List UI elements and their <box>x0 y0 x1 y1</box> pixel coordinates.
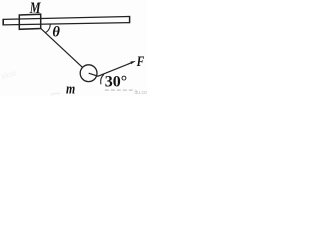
svg-text:du.com: du.com <box>135 90 148 96</box>
svg-text:θ: θ <box>52 24 60 40</box>
theta arc <box>45 24 50 33</box>
rod left cap <box>2 19 4 26</box>
svg-text:30°: 30° <box>105 73 127 90</box>
faint watermark smudge mid-bottom <box>51 93 60 95</box>
svg-text:F: F <box>136 54 144 70</box>
svg-text:m: m <box>66 82 75 96</box>
force F line <box>89 62 133 76</box>
watermark dashed line <box>105 89 136 91</box>
rod top line <box>3 17 129 20</box>
sleeve block M <box>19 14 40 29</box>
30 degree arc <box>101 74 104 84</box>
rod right cap <box>129 16 131 23</box>
ball m <box>80 65 97 82</box>
force F arrowhead <box>131 61 136 64</box>
svg-text:M: M <box>29 0 42 17</box>
rod bottom line <box>3 23 129 25</box>
background <box>0 0 147 96</box>
string <box>41 29 89 74</box>
